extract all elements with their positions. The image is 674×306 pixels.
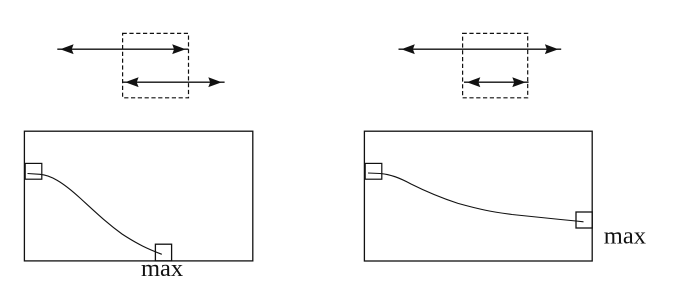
svg-text:max: max <box>604 223 646 250</box>
svg-text:max: max <box>141 255 183 282</box>
